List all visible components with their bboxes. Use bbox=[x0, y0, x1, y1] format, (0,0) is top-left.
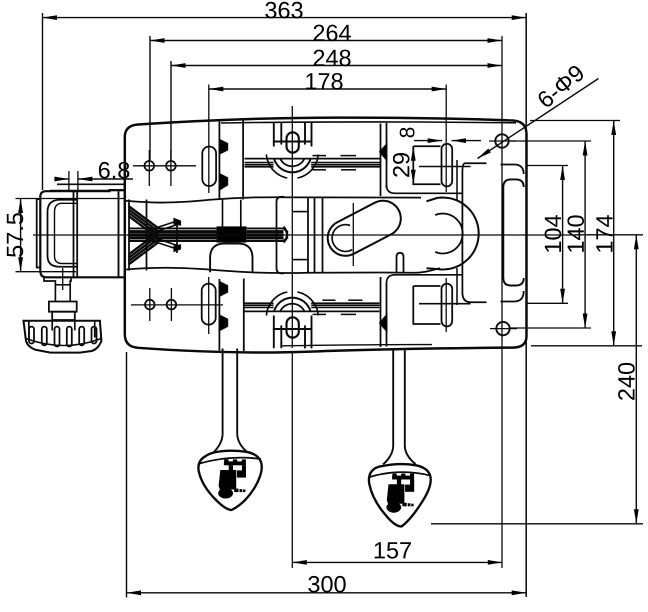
spring stripes lower bbox=[129, 243, 159, 265]
lever1 flare bbox=[214, 435, 223, 453]
centerline hole x149 extension bbox=[148, 150, 150, 186]
U-clamp inner walls top bbox=[280, 122, 282, 145]
spring stripes upper bbox=[129, 206, 159, 228]
top cable band right segment bbox=[311, 162, 380, 164]
extension line left of 363 bbox=[42, 13, 44, 190]
dimension 264 bbox=[150, 40, 502, 42]
control cable band left segment bbox=[129, 227, 219, 229]
centerline bottom anchor slot bbox=[445, 278, 447, 332]
slider plate small rect lines bbox=[293, 211, 308, 213]
arch outer profile bbox=[427, 198, 479, 270]
U cup outer arc top bbox=[274, 159, 310, 173]
lever2 flare bbox=[383, 447, 393, 465]
label 6-phi9 with leader bbox=[478, 79, 599, 159]
lever2 knob bbox=[369, 464, 431, 526]
U-clamp inner walls bottom bbox=[280, 325, 282, 348]
clutch plate vertical x129 bbox=[128, 200, 130, 271]
anchor slot bottom bbox=[442, 284, 453, 327]
clamp wedge lever2 top bbox=[380, 144, 387, 161]
extension/centerline x446 top anchor slot bbox=[445, 85, 447, 193]
lever1 logo bbox=[218, 459, 246, 498]
U cup inner arc top bbox=[280, 158, 305, 166]
bottom cable band right segment bbox=[311, 302, 379, 304]
lever2 bottom plate corner bbox=[387, 275, 463, 283]
hole phi small bottom-left 1 bbox=[145, 300, 155, 310]
bracket connecting line x457 top bbox=[456, 160, 458, 201]
U-clamp outer walls bottom bbox=[273, 316, 275, 349]
inner top edge line bbox=[221, 122, 516, 123]
extension lines of 6.8 bbox=[68, 171, 70, 191]
friction knob inner side walls bbox=[28, 322, 30, 338]
long extension line x525.5 right bbox=[525, 13, 527, 597]
main horizontal centerline bbox=[33, 234, 575, 236]
dimension 57.5 bbox=[20, 199, 22, 272]
flank arc right top bbox=[297, 155, 318, 179]
flank arc right bottom bbox=[297, 292, 318, 316]
U cup outer arc bottom bbox=[274, 298, 310, 312]
bean vertical centerline bbox=[352, 203, 354, 266]
anchor cross line top bbox=[419, 166, 471, 168]
main housing outline bbox=[125, 118, 527, 353]
hole phi9 top-right bbox=[495, 134, 508, 147]
clamp wedge bottom lower bbox=[219, 315, 227, 331]
U-clamp outer walls top bbox=[273, 122, 275, 147]
bean inner arc double line bbox=[332, 225, 352, 252]
U-clamp crossbar top bbox=[273, 140, 312, 142]
lever2 top plate corner bbox=[387, 185, 463, 193]
motor mounting ear lines bbox=[57, 183, 126, 185]
hole phi small bottom-left 2 bbox=[167, 300, 177, 310]
centerline hole x171 extension bbox=[170, 150, 172, 186]
top cable band left segment bbox=[245, 158, 381, 160]
friction knob inner rim arc bbox=[26, 339, 102, 346]
extension line x171 bbox=[170, 61, 172, 160]
extension line 240 top bbox=[575, 234, 643, 236]
centerline bottom slot bbox=[208, 277, 210, 334]
clamp wedge top lower bbox=[219, 174, 227, 190]
flank arc left bottom bbox=[266, 292, 287, 316]
extension/centerline x209 top slot bbox=[208, 85, 210, 194]
centerline horizontal top-left holes bbox=[133, 165, 196, 167]
U-clamp stadium top bbox=[287, 132, 299, 152]
U-clamp crossbar bottom bbox=[273, 328, 312, 330]
control cable band right segment bbox=[247, 227, 284, 229]
hidden line dashes top band bbox=[313, 155, 327, 157]
centerline hole x171 bottom bbox=[170, 288, 172, 321]
extension lines 104 bbox=[527, 165, 568, 167]
spring arm end hooks bbox=[174, 219, 181, 226]
spring arm lower bbox=[145, 239, 179, 250]
motor adapter plate line bbox=[118, 191, 120, 277]
lever1 boss dome bbox=[210, 244, 252, 273]
clamp wedge top upper bbox=[219, 139, 227, 154]
extension lines of 57.5 bbox=[16, 198, 127, 200]
extension line x292 U-feature centerline lower bbox=[291, 352, 293, 568]
centerline bottom-right hole bbox=[490, 328, 517, 330]
hole phi9 bottom-right bbox=[496, 322, 509, 335]
lever2 guide tab bbox=[397, 253, 404, 273]
motor left protruding cap bbox=[37, 199, 41, 267]
U cup inner arc bottom bbox=[280, 304, 305, 312]
lever1 channel left wall upper bbox=[218, 122, 220, 201]
motor end cap inner bbox=[48, 200, 78, 267]
extension line x150 bbox=[149, 36, 151, 160]
extension lines 140 bbox=[510, 140, 591, 142]
motor flange double line bbox=[73, 191, 75, 277]
lever1 shaft walls in band bbox=[222, 200, 224, 227]
slider plate left end cap bbox=[277, 197, 285, 274]
dimension 8 slot width bbox=[414, 140, 442, 142]
clutch collar vertical x177 bbox=[176, 219, 178, 253]
friction knob collar 2 bbox=[52, 312, 75, 320]
motor outer case bbox=[40, 190, 126, 277]
friction knob collar 1 bbox=[49, 302, 77, 312]
hole phi small top-left 1 bbox=[145, 161, 155, 171]
slot bottom-left stadium bbox=[202, 284, 216, 325]
clamp wedge bottom upper bbox=[219, 282, 227, 297]
dimension 363 overall width bbox=[43, 17, 527, 19]
dimension 178 bbox=[209, 88, 446, 90]
anchor slot top bbox=[442, 144, 453, 187]
dimension 104 bbox=[562, 166, 564, 304]
centerline hole x149 bottom bbox=[149, 288, 151, 321]
bottom cable band left segment bbox=[245, 310, 380, 312]
extension line x126.5 bbox=[126, 352, 128, 598]
dimension 6.8 bbox=[56, 178, 69, 180]
U-clamp vertical centerline bbox=[291, 106, 293, 348]
stem centerline tick bbox=[62, 268, 64, 290]
clutch plate vertical x146.5 bbox=[146, 200, 148, 271]
bracket connecting line x457 bottom bbox=[456, 268, 458, 305]
centerline top-right hole bbox=[489, 140, 516, 142]
middle band bottom edge bbox=[126, 268, 440, 273]
friction knob knurl slots bbox=[29, 327, 34, 344]
lever1 knob bbox=[198, 451, 261, 510]
lever2 channel walls lower bbox=[380, 277, 382, 347]
lever2 logo bbox=[386, 474, 414, 513]
lever2 channel walls upper bbox=[380, 124, 382, 197]
anchor bracket rect bottom bbox=[413, 286, 440, 324]
centerline horizontal bottom-left holes bbox=[131, 304, 223, 306]
hidden line dashes bottom band bbox=[322, 299, 335, 301]
arch inner arc bbox=[435, 214, 463, 254]
anchor cross line bottom bbox=[419, 303, 471, 305]
extension lines 174 bbox=[530, 120, 620, 122]
U-clamp stadium bottom bbox=[287, 317, 299, 337]
hole phi small top-left 2 bbox=[166, 161, 176, 171]
lever1 stem bbox=[222, 349, 224, 435]
flank arc left top bbox=[266, 155, 287, 179]
dimension 174 bbox=[613, 121, 615, 346]
bean shaped slot outline bbox=[328, 201, 401, 256]
dimension 248 bbox=[171, 65, 502, 67]
middle band top edge bbox=[126, 197, 421, 202]
inner bottom edge line bbox=[282, 345, 432, 346]
bracket recess rounded rect bbox=[503, 179, 523, 285]
dimension 157 bbox=[292, 561, 502, 563]
dimension 240 bbox=[635, 235, 637, 524]
extension line 240 bottom bbox=[431, 523, 643, 525]
cable band nozzle converge bbox=[283, 228, 288, 232]
friction knob collar side extensions bbox=[51, 321, 53, 331]
lever2 knob seam bbox=[370, 472, 431, 477]
anchor bracket rect top bbox=[413, 146, 440, 184]
lever1 channel walls lower bbox=[218, 279, 220, 351]
dimension 140 bbox=[584, 141, 586, 328]
spring arm upper bbox=[145, 221, 179, 232]
cable band end cap arc bbox=[284, 227, 288, 243]
lever1 clamp block black square bbox=[217, 226, 247, 242]
dimension 300 bbox=[127, 592, 527, 594]
motor end cap second line bbox=[55, 203, 78, 263]
lever1 knob seam bbox=[200, 458, 261, 464]
slot top-left stadium bbox=[202, 147, 216, 187]
lever1 channel right wall upper bbox=[242, 120, 244, 200]
lever2 stem bbox=[392, 349, 394, 447]
motor top step bbox=[110, 189, 127, 191]
slider plate verticals bbox=[307, 197, 309, 273]
stem below motor bbox=[44, 277, 71, 301]
clamp wedge lever2 bottom bbox=[380, 315, 387, 332]
friction knob body bbox=[24, 321, 102, 353]
bracket plate outline bbox=[462, 163, 523, 302]
long extension line x502 right holes bbox=[501, 36, 503, 568]
dimension 29 anchor height bbox=[412, 146, 414, 184]
